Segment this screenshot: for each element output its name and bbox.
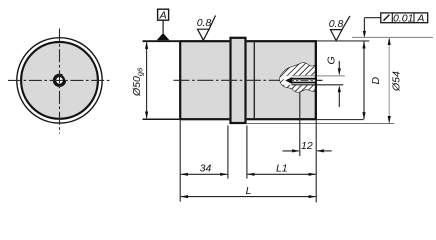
dimension 12 (283, 140, 332, 153)
side view collar Ø54 (229, 37, 246, 124)
collar top extension line (gray) (352, 36, 433, 38)
extension line right of face (top) (317, 40, 370, 42)
dimension L1 (247, 163, 315, 176)
tapped hole bore lines (291, 79, 316, 83)
front view body circle Ø50 (21, 42, 98, 119)
svg-text:0.8: 0.8 (197, 17, 212, 29)
svg-text:12: 12 (301, 140, 313, 152)
tapped hole thread major lines (292, 76, 317, 85)
perpendicularity tolerance frame (381, 12, 428, 24)
front view horizontal centerline (8, 79, 111, 81)
dimension D (362, 41, 382, 120)
G thread extension top (gray) (317, 75, 345, 77)
bottom-left extension line (143, 118, 180, 120)
svg-text:A: A (416, 12, 424, 24)
hole centerline (286, 80, 322, 82)
front view tapped hole minor circle (55, 76, 64, 85)
svg-text:0.01: 0.01 (393, 12, 413, 24)
datum A symbol (157, 9, 170, 40)
dimension G (326, 56, 341, 107)
section hatching (280, 63, 316, 92)
side view horizontal centerline (174, 79, 323, 81)
G thread extension bottom (317, 84, 343, 86)
svg-text:A: A (159, 9, 167, 21)
side view body Ø50/ØD (179, 40, 317, 120)
tolerance frame leader (363, 18, 381, 39)
dimension 34 (181, 163, 228, 176)
dimension Ø54 (388, 38, 403, 124)
svg-text:0.8: 0.8 (329, 18, 344, 30)
collar bottom extension line (247, 123, 394, 125)
front view outer circle Ø54 (17, 38, 102, 123)
surface finish symbol 0.8 right (329, 16, 350, 41)
svg-text:G: G (326, 56, 338, 64)
surface finish symbol 0.8 left (197, 16, 216, 41)
svg-text:34: 34 (200, 163, 212, 175)
extension line for thread depth (299, 92, 301, 157)
extension line right of face (bottom) (317, 119, 364, 121)
svg-text:L1: L1 (276, 163, 288, 175)
dimension Ø50 g6 (131, 41, 148, 119)
dimension L (181, 185, 316, 198)
top-left extension line (143, 40, 180, 42)
right face extension line down (315, 121, 317, 203)
right face line over hole (315, 41, 317, 119)
local section blob outline (280, 63, 316, 92)
svg-text:L: L (246, 185, 252, 197)
svg-text:D: D (370, 77, 382, 85)
left face extension line down (179, 121, 181, 202)
edge line right of collar (253, 42, 255, 118)
front view vertical centerline (59, 29, 61, 134)
drill point cone (285, 77, 292, 84)
front view tapped hole thread arc (53, 74, 65, 86)
collar left extension line down (227, 126, 229, 179)
svg-text:Ø54: Ø54 (391, 71, 403, 92)
collar right extension line down (246, 126, 248, 179)
